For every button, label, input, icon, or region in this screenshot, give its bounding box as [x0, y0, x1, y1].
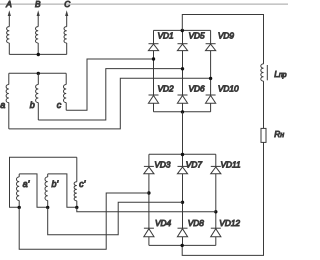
wire bottom bridge left column — [148, 154, 150, 245]
winding a — [8, 73, 10, 84]
wire c-prime top to a-prime bottom — [10, 157, 77, 207]
wire phase b to VD5-VD6 node — [38, 69, 182, 120]
winding b-prime — [47, 174, 49, 177]
winding c — [65, 73, 67, 84]
wire a-prime to VD3-VD4 node — [19, 193, 149, 249]
node phase c input — [152, 57, 155, 60]
diode VD3 — [144, 165, 154, 167]
svg-text:VD9: VD9 — [218, 30, 235, 40]
svg-text:VD5: VD5 — [189, 30, 206, 40]
svg-text:b': b' — [52, 179, 59, 189]
winding B — [37, 15, 39, 27]
svg-text:VD11: VD11 — [221, 160, 241, 170]
wire phase a to VD9-VD10 node — [9, 78, 211, 129]
wire bottom bridge middle column — [182, 154, 184, 245]
wire bottom bridge right column — [215, 154, 217, 245]
wire bridge series link — [182, 112, 184, 154]
svg-text:c: c — [57, 100, 62, 110]
winding c-prime — [76, 157, 78, 181]
wire Lpr to Rn — [263, 81, 265, 128]
diode VD7 — [178, 165, 188, 167]
svg-text:C: C — [64, 0, 71, 9]
wire secondary star bus — [9, 72, 66, 74]
diode VD2 — [149, 94, 159, 96]
wire top bridge right column — [210, 30, 212, 111]
wire primary star bus — [9, 53, 66, 55]
junction primary neutral — [37, 53, 40, 56]
svg-text:VD4: VD4 — [155, 218, 172, 228]
node phase c-prime input — [214, 210, 217, 213]
svg-text:VD12: VD12 — [219, 218, 240, 228]
svg-text:a: a — [0, 100, 5, 110]
wire c-prime to VD11-VD12 node — [77, 207, 216, 211]
svg-text:B: B — [35, 0, 41, 9]
winding b — [37, 73, 39, 84]
wire top bridge lower bus — [154, 111, 211, 113]
wire top bridge positive bus — [154, 29, 211, 31]
svg-text:VD8: VD8 — [188, 218, 205, 228]
svg-text:A: A — [5, 0, 12, 9]
wire bottom bridge bottom bus — [149, 244, 216, 246]
wire top bridge left column — [153, 30, 155, 111]
junction bottom bridge bottom bus — [181, 244, 184, 247]
svg-text:VD7: VD7 — [186, 160, 203, 170]
svg-text:c': c' — [79, 179, 86, 189]
phase arrow A — [8, 10, 11, 16]
wire b-prime top to c-prime bottom — [48, 174, 77, 207]
svg-text:VD1: VD1 — [158, 30, 174, 40]
wire positive output to Lpr — [182, 15, 263, 64]
svg-text:VD3: VD3 — [154, 160, 171, 170]
diode VD4 — [144, 227, 154, 229]
junction lower bus — [181, 110, 184, 113]
inductor Lpr — [261, 64, 264, 81]
diode VD6 — [178, 94, 188, 96]
junction b-prime bottom — [46, 206, 49, 209]
svg-text:b: b — [30, 100, 35, 110]
winding a-prime — [18, 174, 20, 177]
svg-text:VD6: VD6 — [189, 84, 206, 94]
phase arrow B — [37, 10, 40, 16]
svg-text:VD2: VD2 — [158, 84, 175, 94]
wire Rn return rail — [182, 142, 263, 255]
junction a-prime bottom — [18, 206, 21, 209]
resistor Rn — [261, 128, 266, 142]
wire b-prime to VD7-VD8 node — [48, 202, 183, 235]
svg-text:VD10: VD10 — [218, 84, 239, 94]
diode VD1 — [149, 43, 159, 45]
node phase a input — [209, 77, 212, 80]
node phase b-prime input — [181, 201, 184, 204]
diode VD5 — [178, 43, 188, 45]
phase arrow C — [65, 10, 68, 16]
junction secondary neutral — [37, 72, 40, 75]
diode VD11 — [211, 165, 221, 167]
node phase a-prime input — [147, 191, 150, 194]
svg-text:a': a' — [23, 179, 30, 189]
winding C — [66, 15, 68, 27]
wire bottom bridge top bus — [149, 153, 216, 155]
junction bottom bridge top bus — [181, 153, 184, 156]
diode VD8 — [178, 227, 188, 229]
junction c-prime bottom — [75, 206, 78, 209]
wire a-prime top to b-prime bottom — [19, 174, 48, 207]
node phase b input — [181, 67, 184, 70]
junction top bus — [181, 29, 184, 32]
winding A — [8, 15, 10, 27]
wire top bridge middle column — [182, 30, 184, 111]
diode VD9 — [206, 43, 216, 45]
diode VD10 — [206, 94, 216, 96]
diode VD12 — [211, 227, 221, 229]
wire phase c to VD1-VD2 node — [66, 59, 153, 110]
